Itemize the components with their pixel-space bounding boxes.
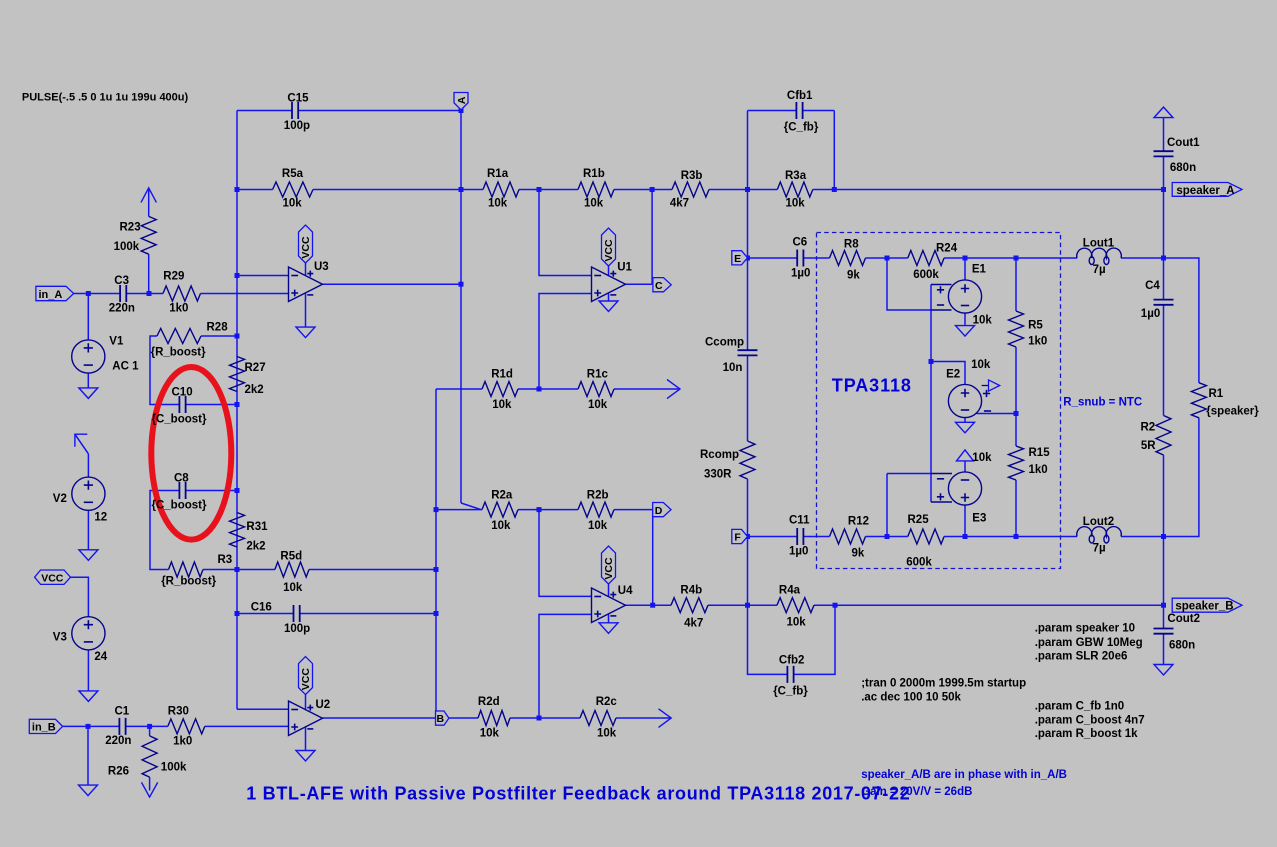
svg-text:10k: 10k [597,728,617,740]
VCVS E2 control arrow [982,380,1000,391]
svg-text:C1: C1 [115,706,130,718]
svg-text:E2: E2 [946,368,960,380]
op-amp U4 body minus input sign [594,596,601,598]
wire V2 to ground [87,510,89,550]
svg-text:.param C_fb 1n0: .param C_fb 1n0 [1035,700,1124,712]
svg-text:600k: 600k [906,557,932,569]
ground below U2 [296,751,315,762]
svg-text:4k7: 4k7 [684,618,703,630]
svg-text:2k2: 2k2 [245,384,264,396]
value R28 [151,347,206,359]
svg-text:1k0: 1k0 [1028,335,1047,347]
VCVS E2 body [948,384,981,417]
svg-text:V2: V2 [53,493,67,505]
svg-text:C11: C11 [789,514,810,526]
svg-text:R4a: R4a [779,584,801,596]
value C3 [109,302,135,314]
op-amp U1 body [592,267,626,302]
wire Lout1 to output column [1121,257,1164,259]
arrow at R1c output [667,380,680,399]
voltage source V3 body [72,617,105,650]
ground below U4 [599,623,618,634]
resistor R31 body [230,513,245,548]
TPA3118 dashed boundary box [817,233,1061,569]
label R1b [583,168,605,180]
voltage source V2 body [72,477,105,510]
inductor Lout2 body [1077,527,1122,543]
svg-text:Ccomp: Ccomp [705,336,744,348]
svg-text:V1: V1 [109,336,124,348]
svg-text:speaker_A/B are in phase with: speaker_A/B are in phase with in_A/B [861,769,1067,781]
wire R4a to Cfb2 right [814,604,835,606]
svg-text:{R_boost}: {R_boost} [161,576,216,588]
junction R15 column bottom [1014,534,1019,539]
wire node A diagonal to R2a row [461,503,481,510]
label R1a [487,168,509,180]
wire U1 ground stem [608,294,610,302]
voltage source V1 body minus sign [84,364,93,366]
label E1 [972,263,987,275]
svg-text:R1: R1 [1209,388,1224,400]
arrow flag above V2 [75,434,87,447]
text param speaker [1035,623,1135,635]
value V1 [112,361,139,373]
value R23 [114,241,140,253]
capacitor C4 body [1154,300,1174,305]
svg-text:10k: 10k [584,198,604,210]
VCVS E3 control plus sign [937,493,944,500]
label R24 [936,243,958,255]
ground below U3 [296,327,315,338]
svg-text:10k: 10k [492,399,512,411]
text param R_boost [1035,728,1138,740]
VCC flag above U4 [602,546,616,584]
junction C1/R26 node [147,724,152,729]
op-amp U2 body [289,701,323,736]
resistor R28 body [157,329,201,344]
op-amp U1 body V+ supply sign [610,271,616,277]
wire R30 to U2 plus input [205,725,289,727]
svg-text:.param R_boost 1k: .param R_boost 1k [1035,728,1138,740]
text R_snub note [1063,397,1142,409]
wire E3 minus control [887,473,931,475]
svg-text:R1b: R1b [583,168,605,180]
svg-text:R5d: R5d [280,550,302,562]
capacitor C8 body [179,482,185,499]
svg-text:R26: R26 [108,766,129,778]
svg-text:100k: 100k [161,762,187,774]
wire E3 bottom pin [964,505,966,536]
wire C1 to R30 [126,725,168,727]
label C11 [789,514,810,526]
value Cfb1 [784,122,819,134]
wire speaker_A row [834,189,1163,191]
svg-text:.param speaker 10: .param speaker 10 [1035,623,1135,635]
svg-text:{C_fb}: {C_fb} [784,122,819,134]
value R30 [173,736,192,748]
svg-text:1µ0: 1µ0 [791,267,810,279]
svg-text:R15: R15 [1029,447,1051,459]
op-amp U4 body [592,588,626,623]
wire V1 to ground [87,373,89,388]
wire node B to R1d [436,388,482,390]
wire R1 top elbow [1164,258,1199,383]
wire Cout2 to ground [1163,634,1165,665]
label R1c [587,369,609,381]
op-amp U2 body V- supply sign [307,728,313,730]
junction node A / R5a [459,187,464,192]
svg-text:TPA3118: TPA3118 [832,376,912,396]
wire U3 output to node A [323,283,462,285]
voltage source V1 body plus sign [84,343,93,352]
wire bus to R5d [237,569,275,571]
svg-text:Cfb1: Cfb1 [787,90,813,102]
wire R23 bottom [148,254,150,293]
VCVS E2 plus sign [961,389,969,397]
text PULSE directive [22,91,189,103]
net flag E [732,251,748,265]
svg-text:VCC: VCC [300,668,312,691]
value R2c [597,728,617,740]
svg-text:10k: 10k [786,198,806,210]
svg-text:{R_boost}: {R_boost} [151,347,206,359]
label R2d [478,696,500,708]
svg-text:speaker_B: speaker_B [1175,601,1233,613]
junction in_B ground node [86,724,91,729]
svg-text:{C_fb}: {C_fb} [773,686,808,698]
wire C15 left [237,110,292,112]
wire R2a to R2b [518,509,578,511]
wire R1 bottom elbow [1164,418,1199,537]
wire E1 to ground [964,313,966,326]
op-amp U3 body V+ supply sign [307,271,313,277]
label R1 [1209,388,1224,400]
svg-text:10k: 10k [480,728,500,740]
svg-text:speaker_A: speaker_A [1176,185,1234,197]
value Cfb2 [773,686,808,698]
wire speaker_B row [835,604,1164,606]
wire R23 arrow stem [148,190,150,217]
text ac directive [861,691,961,703]
wire R28 left bracket [150,336,179,405]
svg-text:330R: 330R [704,468,732,480]
text phase note [861,769,1067,781]
svg-text:R3: R3 [218,554,233,566]
net flag B [436,711,449,725]
svg-text:R2: R2 [1141,422,1156,434]
wire U1 output [626,283,653,285]
wire R3b to node E column [709,189,748,191]
label U3 [314,261,329,273]
svg-text:Rcomp: Rcomp [700,449,739,461]
wire R3 to bus [203,569,237,571]
junction R12/R25 [885,534,890,539]
wire E2 minus control to R5-R15 node [977,413,1017,415]
op-amp U3 body [289,267,323,302]
svg-text:1k0: 1k0 [1029,464,1048,476]
svg-text:R1d: R1d [491,369,513,381]
label C1 [115,706,130,718]
label R25 [908,514,930,526]
label R4a [779,584,801,596]
wire top ground to Cout1 [1163,118,1165,152]
wire U2 ground stem [305,727,307,751]
wire E2 to ground [964,418,966,423]
svg-text:F: F [734,532,741,544]
svg-text:R5: R5 [1028,320,1043,332]
op-amp U4 body V+ supply sign [610,592,616,598]
label R3b [681,170,703,182]
svg-text:Lout2: Lout2 [1083,516,1114,528]
wire C4 to R2 [1163,305,1165,416]
value Lout2 [1093,542,1106,554]
value R4a [787,617,807,629]
label Cout1 [1167,137,1200,149]
label C6 [793,237,808,249]
svg-text:VCC: VCC [603,557,615,580]
resistor R25 body [908,529,944,544]
svg-text:600k: 600k [913,269,939,281]
resistor R8 body [830,251,866,266]
wire C6 to R8 [803,257,829,259]
wire R25 to E3 bottom [944,536,965,538]
op-amp U2 body minus input sign [291,709,298,711]
wire Cfb1 right column [833,111,835,190]
svg-text:A: A [456,96,468,104]
voltage source V2 body plus sign [84,481,93,490]
value V3 [94,651,107,663]
VCVS E3 plus sign [961,493,969,501]
resistor R12 body [830,529,866,544]
VCVS E3 body [948,472,981,505]
VCVS E1 body [948,280,981,313]
svg-text:10k: 10k [491,520,511,532]
label R2a [491,489,513,501]
text TPA3118 label [832,376,912,396]
junction R2d/R2c [537,716,542,721]
wire V1 top [87,294,89,341]
label R5d [280,550,302,562]
wire E2 top pin [931,362,965,385]
wire U3 ground stem [305,294,307,328]
svg-text:Cout2: Cout2 [1167,613,1200,625]
resistor R2d body [478,711,510,726]
value R15 [1029,464,1048,476]
svg-text:in_B: in_B [32,722,56,734]
svg-text:R28: R28 [207,321,229,333]
svg-text:E: E [734,253,741,265]
arrow flag above R23 [141,188,156,203]
wire in_B to C1 [63,725,120,727]
value C8 [152,500,207,512]
svg-text:R1c: R1c [587,369,609,381]
value C11 [789,546,808,558]
svg-text:5R: 5R [1141,440,1156,452]
net flag C [653,278,671,292]
svg-text:R30: R30 [168,706,189,718]
junction node C top [650,187,655,192]
resistor R3b body [672,182,709,197]
svg-text:C4: C4 [1145,280,1160,292]
wire node E column upper [747,111,749,351]
VCVS E1 minus sign [961,305,969,307]
net flag A [454,93,468,110]
value R24 [913,269,939,281]
value C16 [284,623,310,635]
op-amp U1 body minus input sign [594,275,601,277]
svg-text:C: C [655,280,663,292]
resistor R1a body [483,182,519,197]
net flag D [653,503,671,517]
wire R4b to node F column [708,604,748,606]
svg-text:PULSE(-.5 .5 0 1u 1u 199u 400u: PULSE(-.5 .5 0 1u 1u 199u 400u) [22,91,189,103]
value R25 [906,557,932,569]
svg-text:;tran 0 2000m 1999.5m startup: ;tran 0 2000m 1999.5m startup [861,678,1026,690]
label R1d [491,369,513,381]
svg-text:U1: U1 [617,262,632,274]
junction left bus y=189.5 [235,187,240,192]
label C16 [251,602,272,614]
resistor Rcomp body [740,441,755,479]
svg-text:C6: C6 [793,237,808,249]
junction node B / R2a row [434,507,439,512]
label V3 [53,632,67,644]
value C1 [105,735,131,747]
svg-text:10k: 10k [973,314,993,326]
junction E1 top node [963,256,968,261]
op-amp U3 body V- supply sign [307,294,313,296]
value R1b [584,198,604,210]
value R2d [480,728,500,740]
resistor R4a body [777,598,814,613]
VCVS E2 control minus sign [984,410,991,412]
svg-text:10k: 10k [971,359,991,371]
wire U2 VCC stub [305,695,307,710]
op-amp U3 body plus input sign [291,290,298,297]
svg-text:Cout1: Cout1 [1167,137,1200,149]
value Cout2 [1169,640,1195,652]
capacitor Cfb2 body [787,666,793,683]
svg-text:{C_boost}: {C_boost} [152,500,207,512]
wire R2c to arrow [616,717,671,719]
value R12 [852,548,865,560]
VCC flag at V3 [35,570,71,584]
resistor R2 body [1156,416,1171,456]
label R4b [680,584,702,596]
VCC flag above U2 [299,657,313,695]
junction Lout1 / output column [1161,256,1166,261]
wire node A column [460,111,462,504]
value R3a [786,198,806,210]
svg-text:R25: R25 [908,514,930,526]
label R2 [1141,422,1156,434]
wire C16 right [300,613,436,615]
wire R1b to R3b [614,189,672,191]
label R8 [844,239,859,251]
svg-text:1µ0: 1µ0 [789,546,808,558]
ground below in_B node [79,785,98,796]
svg-text:R27: R27 [245,362,266,374]
op-amp U2 body plus input sign [291,724,298,731]
text gain note [861,786,972,798]
svg-text:R5a: R5a [282,168,304,180]
value E3 [972,452,992,464]
capacitor C6 body [797,250,803,267]
svg-text:1 BTL-AFE with Passive Postfil: 1 BTL-AFE with Passive Postfilter Feedba… [246,783,910,803]
svg-text:10k: 10k [787,617,807,629]
svg-text:4k7: 4k7 [670,198,689,210]
wire R5 column to Lout1 [1016,257,1077,259]
wire Cfb1 left lead [748,110,797,112]
label V2 [53,493,67,505]
wire U1 plus down to R1d row [539,294,592,390]
svg-text:U2: U2 [316,699,331,711]
wire R24 to E1 top [944,257,965,259]
net flag speaker_A [1172,183,1242,197]
value R29 [169,303,188,315]
capacitor Cfb1 body [796,102,802,119]
wire R28 right [201,335,237,337]
value R1d [492,399,512,411]
text param C_boost [1035,714,1145,726]
value C15 [284,120,310,132]
wire R8 to R24 [866,257,908,259]
wire R15 column to Lout2 [1016,536,1077,538]
label R28 [207,321,229,333]
svg-text:{speaker}: {speaker} [1206,406,1259,418]
capacitor C1 body [119,718,125,735]
wire R2b to node D [614,509,653,511]
wire E3 control to bottom row [886,474,888,537]
VCVS E2 minus sign [961,409,969,411]
wire V3 to ground [87,650,89,691]
op-amp U2 body V+ supply sign [307,705,313,711]
wire E1 minus control [887,258,931,310]
wire node F column to R4a [748,604,778,606]
svg-text:R24: R24 [936,243,958,255]
wire node C column [651,190,653,285]
junction node F [745,534,750,539]
op-amp U3 body minus input sign [291,275,298,277]
wire in_B node to ground [87,726,89,785]
svg-text:7µ: 7µ [1093,542,1106,554]
svg-text:10k: 10k [283,198,303,210]
label Lout1 [1083,237,1115,249]
value R1a [488,198,508,210]
label C10 [172,387,193,399]
resistor R2a body [482,502,518,517]
VCVS E3 minus sign [961,479,969,481]
junction E2 control / R5-R15 [1014,411,1019,416]
svg-text:R1a: R1a [487,168,509,180]
ground below V3 [79,691,98,702]
svg-text:R2b: R2b [587,489,609,501]
wire C15 right to node A [298,110,461,112]
junction R1d/R1c [537,387,542,392]
wire E3 bottom to R15 column [965,536,1016,538]
op-amp U1 body plus input sign [594,290,601,297]
value R4b [684,618,703,630]
voltage source V2 body minus sign [84,501,93,503]
svg-text:R29: R29 [163,271,184,283]
svg-text:D: D [655,505,663,517]
value Cout1 [1170,162,1196,174]
svg-text:R31: R31 [246,521,268,533]
text param GBW [1035,637,1143,649]
wire node E to C6 [748,257,798,259]
label Rcomp [700,449,739,461]
wire bus to R5a [237,189,273,191]
